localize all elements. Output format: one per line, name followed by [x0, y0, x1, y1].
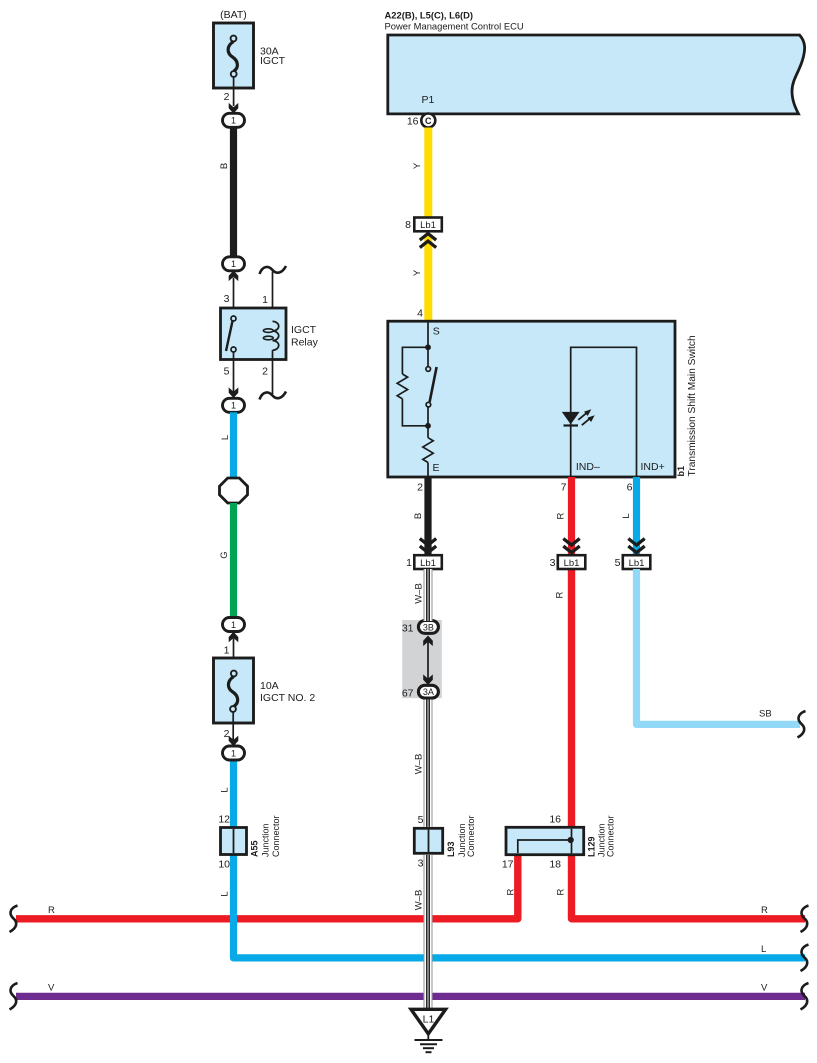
svg-text:B: B: [413, 513, 424, 519]
svg-text:67: 67: [402, 688, 414, 700]
wire SB sky blue from 5 Lb1 down and right: [637, 569, 801, 724]
wire from bottom node to resistor R2: [427, 426, 429, 438]
wire bus R horizontal left segment: [16, 855, 518, 919]
connector ellipse 1: [223, 618, 245, 632]
LED branch wiring: [571, 347, 637, 477]
svg-text:(BAT): (BAT): [220, 9, 247, 21]
svg-text:3: 3: [550, 557, 556, 569]
junction connector A55 box: [221, 828, 247, 855]
svg-text:12: 12: [218, 814, 230, 826]
wire W-B segment 1 Lb1 to 3B: [424, 569, 433, 621]
tear mark right end of R bus: [801, 906, 809, 933]
connector ellipse 3B: [418, 621, 438, 634]
relay switch blade: [226, 321, 233, 351]
svg-text:2: 2: [417, 482, 423, 494]
junction dot on red wire in L129: [568, 837, 574, 843]
svg-text:1: 1: [262, 294, 268, 306]
svg-text:A22(B), L5(C), L6(D): A22(B), L5(C), L6(D): [385, 10, 474, 21]
LED D1 triangle: [562, 412, 580, 425]
node junction dot top: [425, 344, 431, 350]
wire R red from switch pin 7 to 3 Lb1: [568, 477, 575, 555]
svg-text:V: V: [761, 983, 768, 994]
svg-text:L: L: [220, 787, 231, 792]
wire from resistor R2 to pin 2 E: [427, 463, 429, 478]
svg-text:L: L: [621, 513, 632, 518]
svg-text:C: C: [425, 116, 432, 126]
svg-text:L93: L93: [446, 841, 456, 857]
arrow down into connector: [229, 103, 239, 114]
internal thin wire through L129 pin16 to pin18: [571, 829, 573, 854]
svg-text:IGCT: IGCT: [260, 55, 286, 67]
svg-text:1: 1: [224, 645, 230, 657]
ground hatch line 4: [426, 1051, 432, 1053]
connector ellipse 1: [223, 746, 245, 760]
svg-text:6: 6: [627, 482, 633, 494]
chevron pair pointing down above 5 Lb1: [628, 539, 644, 546]
svg-text:1: 1: [231, 620, 236, 630]
svg-text:Power Management Control ECU: Power Management Control ECU: [385, 20, 524, 31]
wire G green octagon to fuse 2: [230, 503, 237, 618]
svg-text:Y: Y: [412, 269, 423, 276]
wire B black fuse to relay: [230, 127, 237, 257]
svg-text:A55: A55: [250, 840, 260, 857]
svg-text:L: L: [761, 944, 766, 955]
svg-text:2: 2: [262, 366, 268, 378]
chevron pair pointing up below 8 Lb1: [420, 234, 436, 241]
ECU box Power Management Control ECU with torn right edge: [388, 35, 805, 114]
chevron pair pointing down above 1 Lb1: [420, 539, 436, 546]
coil line from relay pin 2 to tear: [272, 360, 274, 395]
svg-text:R: R: [506, 888, 517, 895]
wire bus V violet horizontal: [16, 993, 805, 1000]
junction connector L129 box: [506, 827, 584, 854]
pin C circle on ECU: [421, 114, 435, 128]
svg-text:5: 5: [224, 366, 230, 378]
arrow down into 3A: [423, 674, 433, 685]
svg-text:V: V: [48, 983, 55, 994]
svg-text:Connector: Connector: [606, 815, 616, 857]
svg-text:1: 1: [231, 401, 236, 411]
svg-text:16: 16: [549, 814, 561, 826]
svg-text:L1: L1: [423, 1014, 435, 1026]
connector 8 Lb1: [414, 218, 442, 232]
connector ellipse 1: [223, 257, 245, 271]
shield connector box gray: [402, 620, 442, 698]
coil feed wire from tear to relay: [272, 272, 274, 323]
svg-text:3B: 3B: [423, 622, 434, 632]
relay switch contact bottom: [231, 347, 236, 352]
svg-text:IGCT NO. 2: IGCT NO. 2: [260, 692, 315, 704]
svg-text:Lb1: Lb1: [420, 220, 436, 231]
svg-text:R: R: [555, 591, 566, 598]
svg-text:10: 10: [218, 859, 230, 871]
tear mark left end of V bus: [10, 983, 18, 1010]
connector 3 Lb1: [558, 555, 586, 569]
wire from fuse 2 to pin 2: [232, 712, 234, 741]
L93 divider: [428, 830, 430, 852]
tear mark top of coil line: [260, 266, 287, 274]
svg-text:IND–: IND–: [576, 461, 600, 473]
wire bus R horizontal right segment with branch from pin 18: [572, 569, 806, 919]
arrow up into connector: [229, 271, 239, 282]
fuse element symbol: [231, 36, 237, 42]
svg-text:Junction: Junction: [261, 823, 271, 857]
fuse 30A IGCT box: [214, 23, 254, 88]
relay coil: [273, 321, 279, 350]
wire to relay pin 3: [233, 278, 235, 309]
connector ellipse 3A: [418, 685, 438, 698]
svg-text:R: R: [761, 905, 768, 916]
connector ellipse 1: [223, 113, 245, 127]
node junction dot bottom: [425, 423, 431, 429]
LED light arrow 2: [582, 419, 590, 426]
tear mark end of SB wire: [798, 711, 806, 738]
ground hatch line 1: [415, 1039, 443, 1041]
fuse 10A IGCT NO. 2 box: [214, 658, 254, 723]
svg-text:E: E: [433, 462, 440, 474]
svg-text:10A: 10A: [260, 680, 279, 692]
switch contact lower circle: [426, 402, 431, 407]
svg-text:16: 16: [407, 116, 419, 128]
svg-text:Lb1: Lb1: [629, 558, 645, 569]
svg-text:5: 5: [615, 557, 621, 569]
svg-text:L: L: [220, 435, 231, 440]
svg-text:b1: b1: [676, 466, 686, 477]
wire Y yellow from connector 8 Lb1 to switch pin 4: [424, 234, 432, 322]
svg-text:W–B: W–B: [414, 890, 425, 911]
svg-text:8: 8: [405, 219, 411, 231]
svg-text:31: 31: [402, 623, 414, 635]
svg-text:IGCT: IGCT: [291, 324, 317, 336]
wire from fuse to pin 2: [233, 77, 235, 106]
tear mark left end of R bus: [10, 906, 18, 933]
svg-text:G: G: [219, 551, 230, 558]
wire L blue: vertical from A55 down then bus to right: [234, 760, 806, 958]
svg-text:Relay: Relay: [291, 337, 319, 349]
arrow up into 3B: [427, 641, 429, 679]
octagon splice: [220, 478, 248, 503]
svg-text:1: 1: [231, 748, 236, 758]
relay switch contact top: [231, 316, 236, 321]
svg-text:P1: P1: [422, 94, 435, 106]
svg-text:R: R: [48, 905, 55, 916]
wire relay pin 5 down: [233, 360, 235, 393]
svg-text:B: B: [219, 163, 230, 169]
svg-text:Lb1: Lb1: [420, 558, 436, 569]
relay IGCT Relay box: [221, 308, 287, 360]
svg-text:Lb1: Lb1: [564, 558, 580, 569]
svg-text:Transmission Shift Main Switch: Transmission Shift Main Switch: [687, 335, 698, 476]
svg-text:Connector: Connector: [271, 815, 281, 857]
connector 5 Lb1: [623, 555, 651, 569]
svg-text:IND+: IND+: [641, 461, 665, 473]
wire from resistor R1 to bottom node: [402, 399, 428, 426]
wire W-B segment L93 to ground: [424, 855, 433, 1009]
svg-text:17: 17: [502, 859, 514, 871]
tear mark bottom of coil line: [260, 392, 287, 400]
connector 1 Lb1: [414, 555, 442, 569]
wire from pin 4 to node, internal: [427, 321, 429, 345]
svg-text:18: 18: [549, 859, 561, 871]
switch contact upper circle: [427, 347, 429, 366]
svg-text:W–B: W–B: [414, 754, 425, 775]
svg-text:3A: 3A: [423, 687, 434, 697]
ground L1 triangle: [411, 1009, 446, 1034]
svg-text:3: 3: [224, 293, 230, 305]
svg-text:W–B: W–B: [414, 583, 425, 604]
svg-text:R: R: [555, 888, 566, 895]
tear mark right end of V bus: [801, 983, 809, 1010]
wire B black from switch pin 2 to 1 Lb1: [424, 477, 431, 555]
svg-text:L129: L129: [587, 836, 597, 857]
connector ellipse 1: [223, 398, 245, 412]
svg-text:S: S: [433, 326, 440, 338]
svg-text:L: L: [220, 891, 231, 896]
switch box b1 Transmission Shift Main Switch: [388, 321, 675, 477]
arrow down into connector: [229, 736, 239, 747]
arrow down into connector: [229, 387, 239, 398]
ground hatch line 2: [420, 1043, 437, 1045]
chevron pair pointing down above 3 Lb1: [563, 539, 579, 546]
svg-text:5: 5: [418, 814, 424, 826]
LED light arrow 1: [578, 413, 586, 420]
svg-text:Y: Y: [412, 162, 423, 169]
svg-text:2: 2: [224, 91, 230, 103]
wire left branch to resistor R1: [402, 347, 428, 374]
svg-text:R: R: [556, 512, 567, 519]
junction connector L93 box: [414, 828, 442, 853]
svg-text:Connector: Connector: [466, 815, 476, 857]
ground stub: [427, 1034, 429, 1040]
arrow up into connector: [229, 632, 239, 643]
A55 divider: [233, 829, 235, 853]
wire L blue from switch pin 6 to 5 Lb1: [633, 477, 640, 555]
svg-text:1: 1: [231, 259, 236, 269]
resistor R2 zigzag: [423, 438, 433, 463]
switch blade: [430, 367, 437, 402]
tear mark right end of L bus: [801, 945, 809, 972]
svg-text:1: 1: [231, 116, 236, 126]
resistor R1 zigzag: [397, 374, 407, 399]
svg-text:SB: SB: [759, 709, 772, 720]
wire to fuse 2: [233, 638, 235, 658]
wire Y yellow from ECU pin 16 to connector 8 Lb1: [424, 128, 432, 218]
svg-text:7: 7: [561, 482, 567, 494]
svg-text:4: 4: [417, 308, 423, 320]
LED cathode bar: [564, 424, 579, 426]
wire L blue relay to octagon: [230, 412, 237, 480]
wire W-B segment 3A to L93: [424, 700, 433, 827]
ground hatch line 3: [423, 1047, 434, 1049]
svg-text:3: 3: [418, 858, 424, 870]
fuse element symbol: [231, 671, 237, 677]
svg-text:1: 1: [406, 557, 412, 569]
internal link wire pin 17 to red line: [518, 840, 571, 853]
